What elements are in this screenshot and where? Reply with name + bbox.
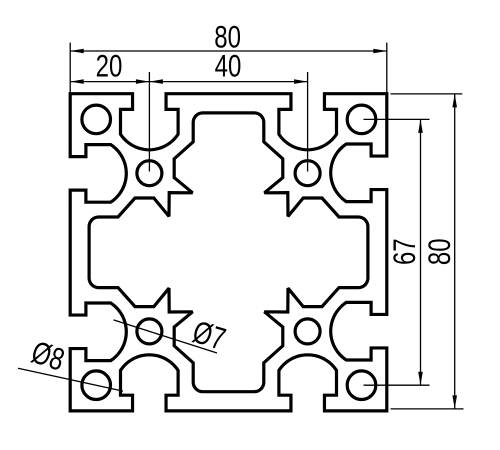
svg-text:40: 40 bbox=[215, 48, 242, 83]
svg-text:80: 80 bbox=[422, 238, 457, 265]
svg-text:67: 67 bbox=[387, 238, 422, 265]
svg-text:20: 20 bbox=[96, 48, 123, 83]
